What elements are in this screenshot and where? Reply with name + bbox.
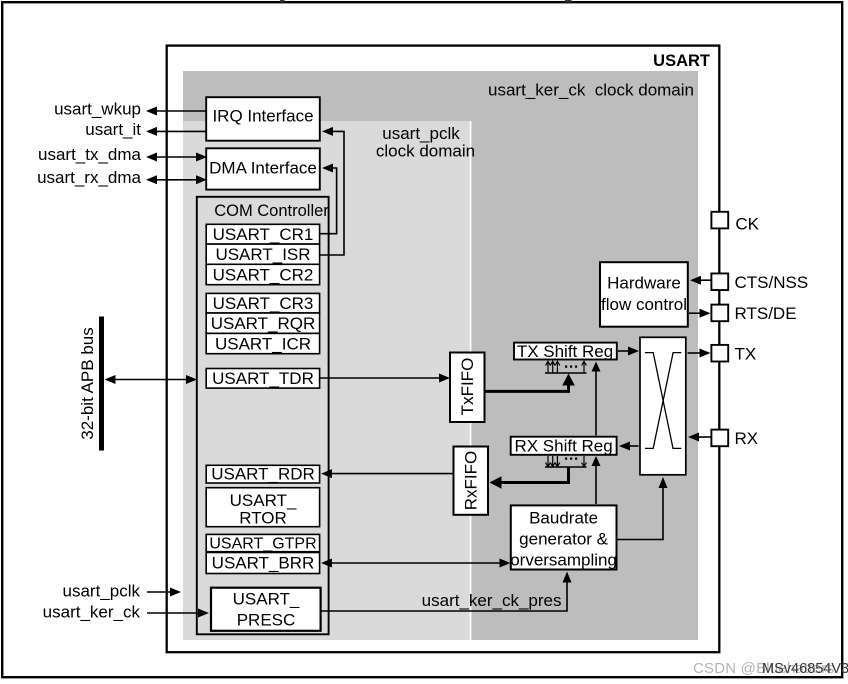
svg-text:usart_wkup: usart_wkup — [54, 100, 141, 119]
svg-text:USART_CR3: USART_CR3 — [213, 294, 314, 313]
svg-text:RTOR: RTOR — [239, 509, 287, 528]
svg-text:TX: TX — [735, 345, 757, 364]
svg-text:USART_GTPR: USART_GTPR — [209, 536, 316, 553]
svg-text:CTS/NSS: CTS/NSS — [735, 273, 809, 292]
svg-text:usart_it: usart_it — [85, 120, 141, 139]
svg-text:Hardware: Hardware — [607, 274, 681, 293]
svg-text:USART: USART — [653, 52, 710, 70]
svg-text:MSv46854V3: MSv46854V3 — [762, 661, 848, 677]
svg-text:Baudrate: Baudrate — [529, 509, 598, 528]
svg-text:DMA Interface: DMA Interface — [209, 159, 317, 178]
svg-text:USART_: USART_ — [230, 491, 297, 510]
svg-text:CK: CK — [735, 214, 759, 233]
svg-text:USART_: USART_ — [233, 590, 300, 609]
svg-text:usart_pclk: usart_pclk — [382, 124, 460, 143]
svg-text:PRESC: PRESC — [237, 611, 296, 630]
svg-text:RTS/DE: RTS/DE — [735, 304, 797, 323]
svg-text:USART_RDR: USART_RDR — [211, 465, 315, 484]
svg-text:orversampling: orversampling — [510, 551, 617, 570]
svg-text:TX Shift Reg: TX Shift Reg — [517, 342, 613, 361]
svg-text:IRQ Interface: IRQ Interface — [212, 107, 313, 126]
svg-text:clock domain: clock domain — [376, 141, 475, 160]
svg-text:usart_ker_ck clock domain: usart_ker_ck clock domain — [488, 81, 694, 100]
svg-text:USART_ICR: USART_ICR — [215, 335, 311, 354]
svg-text:usart_ker_ck: usart_ker_ck — [43, 603, 141, 622]
svg-text:usart_ker_ck_pres: usart_ker_ck_pres — [422, 591, 562, 610]
svg-text:32-bit APB bus: 32-bit APB bus — [78, 327, 97, 439]
svg-text:USART_CR1: USART_CR1 — [213, 225, 314, 244]
svg-text:USART_ISR: USART_ISR — [215, 245, 310, 264]
svg-text:RX Shift Reg: RX Shift Reg — [514, 437, 612, 456]
svg-text:USART_RQR: USART_RQR — [211, 314, 316, 333]
svg-text:usart_tx_dma: usart_tx_dma — [38, 145, 142, 164]
svg-text:COM Controller: COM Controller — [214, 202, 329, 220]
svg-text:usart_rx_dma: usart_rx_dma — [37, 168, 141, 187]
svg-text:flow control: flow control — [601, 295, 687, 314]
svg-text:RX: RX — [735, 429, 759, 448]
svg-text:RxFIFO: RxFIFO — [462, 451, 481, 511]
svg-text:usart_pclk: usart_pclk — [63, 582, 141, 601]
svg-text:TxFIFO: TxFIFO — [458, 358, 477, 416]
svg-text:USART_TDR: USART_TDR — [212, 369, 314, 388]
svg-text:USART_CR2: USART_CR2 — [213, 266, 314, 285]
svg-text:generator &: generator & — [519, 530, 608, 549]
svg-text:USART_BRR: USART_BRR — [212, 554, 315, 573]
